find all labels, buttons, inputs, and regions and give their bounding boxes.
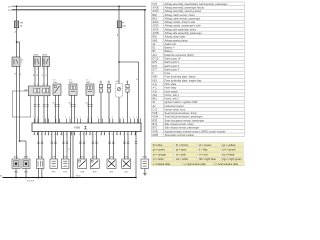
svg-text:Telematics control module: Telematics control module [165,133,195,137]
svg-text:A220: A220 [14,155,18,158]
svg-text:hgn = light green: hgn = light green [222,157,242,161]
svg-text:3: 3 [123,134,124,136]
svg-text:4: 4 [127,134,128,136]
svg-text:B7C: B7C [153,127,158,130]
svg-text:4: 4 [134,134,135,136]
svg-text:1: 1 [65,117,66,119]
svg-text:K8H: K8H [153,76,158,79]
svg-text:3: 3 [92,134,93,136]
svg-text:ws = white: ws = white [176,157,189,161]
svg-text:2: 2 [140,117,141,119]
svg-text:4: 4 [83,134,84,136]
svg-text:A-C: A-C [153,87,158,90]
svg-text:4: 4 [66,134,67,136]
svg-text:1: 1 [76,117,77,119]
svg-text:1: 1 [33,117,34,119]
svg-text:Airbag spiral cable: Airbag spiral cable [165,35,187,39]
svg-text:H-W: H-W [63,156,67,158]
svg-text:B18: B18 [53,82,56,84]
svg-text:Airbag side assembly, passenge: Airbag side assembly, passenger [165,31,202,35]
svg-text:MCB: MCB [143,156,148,158]
svg-text:4: 4 [95,134,96,136]
svg-text:Battery +: Battery + [165,46,176,50]
svg-text:4: 4 [41,134,42,136]
svg-text:1: 1 [136,117,137,119]
svg-text:3: 3 [33,134,34,136]
svg-text:2: 2 [122,117,123,119]
svg-text:B91: B91 [153,36,158,39]
svg-text:MCB: MCB [153,134,159,137]
svg-text:B7B: B7B [153,119,158,122]
svg-text:H1W: H1W [153,116,159,119]
svg-text:el = cream: el = cream [199,143,211,147]
svg-text:Seat belt pretensioner, driver: Seat belt pretensioner, driver [165,111,198,115]
svg-text:rt = red: rt = red [199,152,208,156]
svg-text:ge = yellow: ge = yellow [222,143,235,147]
svg-text:3: 3 [56,134,57,136]
svg-text:Horn switch: Horn switch [165,89,179,93]
svg-text:2: 2 [101,117,102,119]
svg-text:3: 3 [79,134,80,136]
svg-text:Seat occupancy sensor, passeng: Seat occupancy sensor, passenger [165,118,205,122]
svg-text:1: 1 [46,68,47,70]
svg-text:H1B: H1B [153,112,158,115]
svg-text:1: 1 [129,117,130,119]
svg-text:3: 3 [62,134,63,136]
svg-text:3: 3 [51,134,52,136]
svg-text:3: 3 [44,134,45,136]
svg-text:B61: B61 [153,98,158,101]
svg-text:1: 1 [43,68,44,70]
svg-text:B19: B19 [153,17,158,20]
svg-text:Earth point 14: Earth point 14 [165,57,181,61]
svg-text:A708: A708 [80,155,84,158]
svg-text:A-B: A-B [153,90,158,93]
svg-text:1: 1 [97,117,98,119]
svg-text:ge: ge [33,74,35,76]
svg-text:bl = blue: bl = blue [153,143,163,147]
svg-text:4: 4 [112,134,113,136]
svg-text:T12: T12 [85,103,88,105]
svg-text:2: 2 [58,117,59,119]
svg-text:3: 3 [116,134,117,136]
svg-text:li = lilac: li = lilac [199,148,208,152]
svg-text:2: 2 [80,117,81,119]
svg-text:Interior lamp, front: Interior lamp, front [165,107,186,111]
svg-text:Airbag crash sensor, passenger: Airbag crash sensor, passenger [165,16,201,20]
svg-text:y = high tension cable: y = high tension cable [184,163,207,166]
svg-text:br = brown: br = brown [176,143,189,147]
svg-text:H-M: H-M [52,156,56,158]
svg-text:rs = pink: rs = pink [176,152,187,156]
svg-text:2: 2 [112,117,113,119]
svg-text:H47: H47 [116,81,119,83]
svg-text:Airbag crash sensor, driver: Airbag crash sensor, driver [165,13,195,17]
svg-text:Earth point 2: Earth point 2 [165,60,180,64]
svg-text:A708: A708 [124,155,128,158]
svg-text:4: 4 [48,134,49,136]
svg-text:z = heat resistant cable: z = heat resistant cable [215,163,239,166]
svg-text:1: 1 [44,117,45,119]
svg-text:H80: H80 [153,39,158,42]
svg-text:Airbag curtain, passenger's si: Airbag curtain, passenger's side [165,24,202,28]
svg-text:Audio unit: Audio unit [165,42,177,46]
svg-text:A230: A230 [24,155,28,158]
svg-text:A706: A706 [109,155,113,158]
svg-text:vi = violet: vi = violet [153,157,164,161]
svg-text:B18: B18 [153,14,158,17]
svg-text:1: 1 [87,117,88,119]
svg-text:sw = black: sw = black [222,152,235,156]
svg-text:gn = green: gn = green [153,148,166,152]
svg-text:Airbag warning lamp: Airbag warning lamp [165,38,189,42]
svg-text:K8J: K8J [153,79,158,82]
svg-text:T12: T12 [68,103,71,105]
svg-text:E77: E77 [153,68,158,71]
svg-text:A70A: A70A [153,10,159,13]
svg-text:Data link connector (DLC): Data link connector (DLC) [165,53,194,57]
svg-text:gr = grey: gr = grey [176,148,187,152]
svg-text:A70B: A70B [153,7,159,10]
svg-text:R18: R18 [80,171,83,173]
svg-text:C-G: C-G [153,108,158,111]
svg-text:Battery -: Battery - [165,49,175,53]
svg-text:1: 1 [108,117,109,119]
svg-text:A11: A11 [153,54,158,57]
svg-text:A70B: A70B [153,32,159,35]
svg-text:Airbag curtain, driver's side: Airbag curtain, driver's side [165,20,196,24]
svg-text:3: 3 [108,134,109,136]
svg-text:nf = natural: nf = natural [222,148,235,152]
svg-text:4: 4 [74,134,75,136]
svg-text:gn: gn [37,74,39,76]
svg-text:B7A: B7A [153,123,158,126]
svg-text:R21: R21 [124,171,127,173]
svg-text:A11: A11 [39,155,42,158]
svg-text:Supplementary restraint system: Supplementary restraint system (SRS) con… [165,129,226,133]
svg-text:E75: E75 [153,61,158,64]
svg-text:Airbag assembly, passenger fas: Airbag assembly, passenger fascia [165,6,205,10]
svg-text:Horns, belt 1: Horns, belt 1 [165,93,180,97]
svg-text:Horn plate: Horn plate [165,82,177,86]
svg-text:1: 1 [55,117,56,119]
svg-text:or = orange: or = orange [153,152,167,156]
svg-text:A709: A709 [153,28,159,31]
svg-text:1: 1 [34,68,35,70]
svg-text:M7B: M7B [153,130,158,133]
svg-text:E710: E710 [153,58,159,61]
svg-text:Side impact sensor, driver: Side impact sensor, driver [165,122,194,126]
svg-text:E76: E76 [153,65,158,68]
svg-text:E75: E75 [52,171,55,173]
svg-text:A230: A230 [153,25,159,28]
svg-text:Earth point 3: Earth point 3 [165,64,180,68]
svg-text:Fuse: Fuse [165,71,171,75]
svg-text:Instrument panel: Instrument panel [165,104,184,108]
svg-text:Seat belt pretensioner, passen: Seat belt pretensioner, passenger [165,115,203,119]
svg-text:E710: E710 [76,176,80,178]
svg-text:3: 3 [130,134,131,136]
svg-text:2: 2 [90,117,91,119]
svg-text:3: 3 [100,134,101,136]
svg-text:4: 4 [21,62,22,64]
svg-text:Ignition switch + ignition SN3: Ignition switch + ignition SN3 [165,100,198,104]
svg-text:4: 4 [60,134,61,136]
svg-text:A709: A709 [92,155,96,158]
svg-text:R19: R19 [93,171,96,173]
svg-text:E75 E76: E75 E76 [27,180,34,182]
svg-text:E76: E76 [64,171,67,173]
svg-text:R20: R20 [110,171,113,173]
svg-text:A220: A220 [153,21,159,24]
svg-text:Horn relay: Horn relay [165,86,177,90]
svg-text:Fuse box/relay plate, fascia: Fuse box/relay plate, fascia [165,75,197,79]
svg-text:4: 4 [89,134,90,136]
svg-text:Side impact sensor, passenger: Side impact sensor, passenger [165,126,200,130]
svg-text:Airbag side assembly, driver: Airbag side assembly, driver [165,27,197,31]
svg-text:x = braided cable: x = braided cable [153,163,171,166]
svg-text:3: 3 [37,134,38,136]
svg-text:Earth point 4: Earth point 4 [165,67,180,71]
svg-text:B19: B19 [69,82,72,84]
svg-text:A61: A61 [153,94,158,97]
svg-text:H47: H47 [153,3,158,6]
svg-text:1: 1 [119,117,120,119]
svg-text:1: 1 [37,68,38,70]
svg-text:A70B: A70B [74,127,80,130]
svg-text:2: 2 [69,117,70,119]
svg-text:3: 3 [85,134,86,136]
svg-text:A-A: A-A [153,83,158,86]
svg-text:4: 4 [119,134,120,136]
svg-text:Airbag assembly, deactivation: Airbag assembly, deactivation warning la… [165,2,228,6]
svg-text:Fuse box/relay plate, engine b: Fuse box/relay plate, engine bay [165,78,203,82]
svg-text:2: 2 [48,117,49,119]
svg-text:4: 4 [104,134,105,136]
svg-text:hbl = light blue: hbl = light blue [199,157,216,161]
svg-text:2: 2 [37,117,38,119]
svg-text:4: 4 [54,134,55,136]
svg-text:2: 2 [133,117,134,119]
svg-text:T12: T12 [52,103,55,105]
svg-text:Airbag assembly, steering whee: Airbag assembly, steering wheel [165,9,202,13]
svg-text:Horns, belt 2: Horns, belt 2 [165,97,180,101]
